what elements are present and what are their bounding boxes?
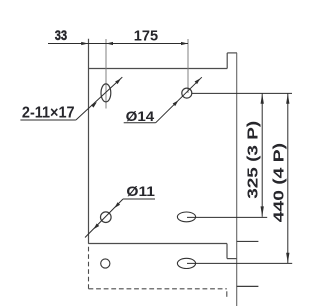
top step riser — [226, 53, 228, 69]
leader diagonal 2-11x17 — [76, 77, 122, 120]
top step cap — [227, 52, 237, 54]
extension line y=263 from lower right slot — [187, 262, 292, 264]
dim 325 line — [261, 93, 263, 217]
svg-text:Ø11: Ø11 — [126, 184, 155, 199]
svg-text:440 (4 P): 440 (4 P) — [271, 143, 287, 222]
dim 440 line — [287, 93, 289, 263]
leader diagonal D14 — [156, 77, 202, 123]
leader arrow near slot upper — [115, 79, 121, 85]
leader arrow D14 upper — [195, 78, 201, 84]
part left edge with extension above — [88, 39, 90, 244]
leader diagonal D11 — [85, 199, 123, 238]
svg-text:2-11×17: 2-11×17 — [22, 104, 75, 122]
leader arrow D11 upper — [114, 202, 120, 208]
slotted hole right lower — [177, 258, 195, 268]
bottom step shelf — [227, 258, 237, 260]
extension line y=93 from D14 — [192, 92, 292, 94]
phantom hole D11 lower — [101, 259, 110, 268]
leader arrow D14 lower — [173, 100, 179, 106]
svg-text:175: 175 — [134, 28, 158, 44]
arrow right at x=188 — [181, 42, 188, 45]
leader underline D11 — [123, 198, 155, 200]
arrow left at x=106 — [106, 42, 113, 45]
dashed phantom right step — [226, 291, 228, 299]
hole centerline x=188 — [187, 39, 189, 93]
svg-text:325 (3 P): 325 (3 P) — [244, 121, 260, 199]
part right edge — [236, 53, 238, 306]
arrow down 325 — [261, 206, 264, 216]
extension line y=217 from right slot — [187, 216, 267, 218]
arrow up 325 — [261, 94, 264, 104]
leader arrow near slot lower — [91, 102, 97, 108]
hole D14 — [182, 88, 192, 98]
leader underline D14 — [124, 122, 156, 124]
part top edge — [88, 68, 227, 70]
part bottom edge — [88, 243, 227, 245]
leader arrow D11 lower — [94, 223, 100, 229]
bottom step riser — [226, 244, 228, 259]
arrow right at x=88 — [81, 42, 88, 45]
side view tick upper — [237, 240, 259, 242]
arrow up 440 — [286, 94, 289, 104]
arrow down 440 — [286, 253, 289, 263]
dashed phantom left edge — [88, 247, 90, 289]
side view tick lower — [237, 285, 259, 287]
hole D11 — [101, 212, 112, 223]
svg-text:33: 33 — [55, 28, 67, 43]
leader underline 2-11x17 — [20, 119, 76, 121]
slot hole 11x17 — [101, 84, 111, 102]
top dimension line — [48, 43, 188, 45]
dashed phantom bottom edge — [89, 288, 227, 290]
slotted hole right upper — [177, 212, 195, 222]
slot centerline x=106 — [105, 39, 107, 109]
